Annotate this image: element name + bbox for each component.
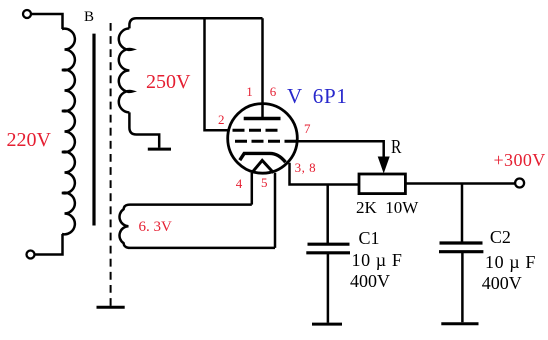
wire: branch down to C2: [461, 184, 464, 242]
wire: plate lead (pins 1,6) down into tube: [261, 18, 264, 118]
wire: resistor to +300V terminal: [405, 182, 515, 185]
wire: primary winding bottom to bottom terminal: [35, 234, 63, 255]
label C2 voltage 400V: [482, 274, 522, 292]
label +300V: [494, 151, 546, 169]
label B (transformer): [84, 10, 94, 25]
label 220V: [7, 130, 51, 150]
wire: pin 7 (grid2) to rheostat arrow: [297, 141, 383, 157]
label pin 1: [246, 85, 253, 98]
terminal top-left (220V input): [23, 10, 31, 18]
tube grid 1 (dashed): [233, 129, 282, 132]
wire: branch down to C1: [326, 185, 329, 244]
label C2 value 10uF: [485, 253, 536, 271]
arrowhead of rheostat wiper: [378, 157, 390, 174]
capacitor C1 plates: [306, 244, 350, 253]
label pin 5: [261, 176, 268, 189]
label pin 4: [236, 177, 243, 190]
label C1 value 10uF: [352, 251, 403, 269]
ground bar C1: [312, 323, 342, 326]
wire: C2 bottom lead: [461, 253, 464, 322]
terminal bottom-left (220V input): [27, 251, 35, 259]
wire: heater pin 5 down: [274, 173, 277, 248]
wire: 250V winding bottom to ground stub: [129, 112, 159, 147]
label pin 2: [218, 113, 225, 126]
wire: grid lead (pin 2) from top wire down: [205, 18, 229, 130]
label pin 6: [270, 85, 277, 98]
label R: [391, 137, 401, 157]
label pin 7: [304, 122, 311, 135]
transformer shield dashed line: [110, 23, 112, 306]
resistor R body: [359, 174, 405, 194]
transformer core bar: [92, 34, 95, 226]
tube plate bar: [244, 117, 281, 121]
label tube designator V: [287, 86, 302, 107]
wire: heater pin 4 down: [251, 173, 254, 205]
wire: cathode pins 3,8 down and right to resistor: [290, 163, 359, 185]
label C2: [490, 228, 511, 246]
ground bar of 250V winding: [148, 148, 171, 151]
secondary winding 250V (4 loops, bulge left): [119, 28, 133, 112]
tube heater filament: [252, 160, 274, 172]
wire: C1 bottom lead: [327, 254, 330, 323]
wire: top terminal to primary winding top: [31, 14, 63, 29]
primary winding 220V (10 loops, bulge right): [62, 29, 75, 235]
ground bar of shield: [97, 306, 125, 309]
label C1 voltage 400V: [350, 272, 390, 290]
label 250V: [146, 72, 190, 92]
label pins 3,8: [295, 161, 317, 174]
label tube type 6P1: [313, 86, 348, 107]
tube cathode: [240, 153, 286, 162]
tube V envelope circle: [228, 104, 298, 174]
ground bar C2: [441, 322, 478, 325]
label C1: [359, 229, 380, 247]
label 2K 10W: [356, 199, 418, 216]
label 6.3V: [139, 220, 172, 235]
tube grid 2 (dashed): [235, 140, 301, 143]
capacitor C2 plates: [439, 243, 483, 252]
wire: 250V winding top to plate lead corner: [129, 18, 262, 28]
wire + 6.3V winding (2 loops, bulge left): [120, 205, 275, 248]
output terminal +300V: [515, 179, 524, 188]
